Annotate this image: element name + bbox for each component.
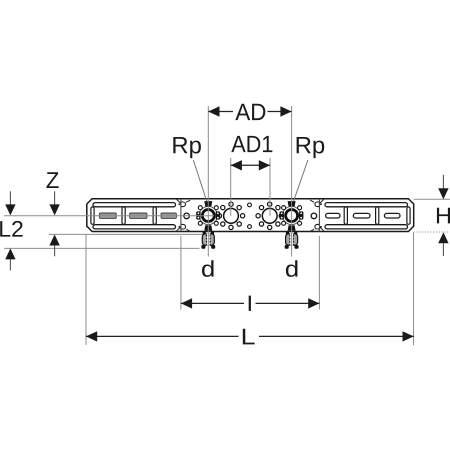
left plain hole AD1 bbox=[224, 208, 239, 223]
right plain hole ring circles bbox=[256, 202, 283, 230]
junction tab top-left bbox=[181, 202, 185, 207]
right AD1 extension line bbox=[269, 158, 271, 216]
left elbow outlet bbox=[201, 232, 215, 249]
left wing rib 2 bbox=[130, 213, 147, 218]
left AD1 extension line bbox=[230, 158, 232, 216]
center small hole bottom bbox=[248, 225, 252, 229]
right plain hole AD1 bbox=[262, 208, 277, 223]
left wing top slot bbox=[93, 203, 176, 207]
left wing vertical oval 3 bbox=[153, 207, 156, 224]
dimension l bbox=[181, 296, 320, 311]
right union Rp bbox=[280, 201, 304, 231]
L left extension line bbox=[85, 235, 87, 345]
right union axis line bbox=[291, 106, 293, 257]
left wing vertical oval 2 bbox=[122, 207, 125, 224]
dimension Z arrows bbox=[47, 172, 60, 256]
left wing rib 3 bbox=[161, 213, 176, 218]
right wing h-slot 2 bbox=[353, 213, 370, 218]
right wing vertical oval 2 bbox=[376, 207, 379, 224]
left union Rp bbox=[196, 201, 220, 231]
junction tab bottom-left bbox=[181, 224, 185, 229]
dimension L2 arrows bbox=[0, 191, 22, 270]
left wing rib 1 bbox=[99, 213, 116, 218]
label Rp left bbox=[173, 137, 201, 158]
Rp leader right bbox=[294, 160, 308, 201]
H top reference line (right) bbox=[414, 198, 450, 200]
left wing bottom slot bbox=[93, 225, 176, 229]
left wing vertical oval 1 bbox=[91, 207, 94, 224]
right section boundary line bbox=[318, 199, 320, 232]
center small hole top bbox=[248, 203, 252, 207]
junction rivet nubs bbox=[179, 203, 322, 227]
right fixing hole bbox=[311, 213, 317, 219]
left fixing hole bbox=[184, 213, 190, 219]
label d right bbox=[286, 260, 298, 277]
H bottom dotted reference line (right) bbox=[414, 231, 450, 233]
l left extension line bbox=[180, 236, 182, 310]
left section boundary line bbox=[180, 199, 182, 232]
centerline reference (left, y=215.7) bbox=[4, 215, 214, 217]
left plain hole ring circles bbox=[217, 202, 245, 230]
label Rp right bbox=[297, 137, 325, 158]
right wing top slot bbox=[325, 203, 408, 207]
junction tab bottom-right bbox=[315, 224, 319, 229]
right wing bottom slot bbox=[325, 225, 408, 229]
junction ticks right bbox=[310, 199, 324, 231]
Rp leader left bbox=[193, 160, 207, 201]
right wing h-slot 3 bbox=[384, 213, 400, 218]
L right extension line bbox=[413, 233, 415, 346]
right wing vertical oval 1 bbox=[344, 207, 347, 224]
dimension AD1 bbox=[231, 136, 273, 171]
right wing end oval bbox=[407, 207, 410, 224]
dimension AD bbox=[208, 104, 291, 120]
dimension H arrows bbox=[437, 175, 450, 256]
outlet reference line (y=234.4) bbox=[49, 233, 202, 235]
dimension L bbox=[86, 329, 414, 345]
right wing h-slot 1 bbox=[326, 213, 340, 218]
junction tab top-right bbox=[315, 202, 319, 207]
label d left bbox=[202, 260, 214, 277]
left union axis line bbox=[207, 106, 209, 257]
junction ticks left bbox=[177, 199, 191, 231]
mounting rail outline bbox=[87, 199, 414, 232]
L2 bottom reference line (y=248.4) bbox=[4, 247, 200, 249]
l right extension line bbox=[318, 236, 320, 310]
right elbow outlet bbox=[285, 232, 299, 249]
